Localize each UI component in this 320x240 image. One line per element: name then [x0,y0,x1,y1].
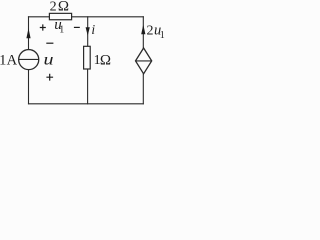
wire left vertical upper [28,17,30,50]
current source U1 circle (1 A) [19,50,39,70]
arrow current 2u1 up (right branch) [141,25,145,35]
svg-text:u: u [44,52,54,69]
resistor 1 ohm (middle) [84,46,91,69]
wire bottom [29,103,144,105]
arrow current 1A up (left branch) [26,28,30,38]
wire right vertical lower [142,74,144,104]
svg-text:2: 2 [147,24,154,39]
polarity plus of u1 [40,24,46,30]
wire left vertical lower [28,70,30,104]
resistor 2 ohm (top) [49,13,71,19]
wire middle vertical lower [87,69,89,104]
dependent source bar [136,60,152,62]
current source bar [19,58,39,60]
svg-text:1: 1 [0,53,6,69]
dependent current source diamond (2u1) [136,48,152,74]
svg-text:Ω: Ω [58,0,69,15]
polarity minus of u (above source) [46,42,53,44]
wire top-left segment [29,16,49,18]
wire top-right segment [72,16,143,18]
svg-text:2: 2 [50,0,57,15]
arrow current i down (middle branch) [86,27,90,36]
svg-text:1: 1 [160,30,165,41]
svg-text:1: 1 [59,25,64,36]
svg-text:i: i [91,22,95,37]
wire middle vertical upper [87,17,89,46]
svg-text:A: A [7,53,18,69]
polarity plus of u (below source) [46,74,53,81]
polarity minus of u1 [74,26,80,28]
svg-text:Ω: Ω [100,52,111,68]
wire right vertical upper [142,17,144,49]
